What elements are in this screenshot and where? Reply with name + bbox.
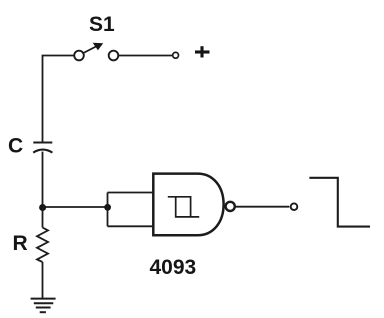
wire bbox=[108, 192, 154, 194]
wire bbox=[43, 56, 75, 143]
wire bbox=[235, 206, 289, 208]
wire bbox=[42, 208, 44, 228]
switch S1 throw contact bbox=[109, 51, 119, 61]
ground bbox=[31, 299, 56, 313]
svg-text:4093: 4093 bbox=[150, 256, 197, 279]
wire bbox=[42, 152, 44, 207]
wire bbox=[118, 55, 172, 57]
svg-text:R: R bbox=[13, 232, 28, 255]
schmitt hysteresis symbol bbox=[168, 197, 199, 217]
wire bbox=[107, 193, 109, 227]
inverting output bubble bbox=[226, 202, 235, 211]
switch S1 lever bbox=[83, 47, 96, 54]
svg-text:S1: S1 bbox=[89, 13, 115, 36]
wire bbox=[108, 225, 154, 227]
output terminal bbox=[291, 203, 298, 210]
svg-text:C: C bbox=[8, 135, 23, 158]
nand gate U1 bbox=[153, 174, 223, 236]
junction bbox=[39, 204, 46, 211]
resistor R bbox=[37, 228, 48, 263]
capacitor C bbox=[33, 143, 52, 153]
switch S1 arrowhead bbox=[93, 43, 104, 51]
terminal + bbox=[173, 52, 179, 58]
label + bbox=[195, 46, 210, 57]
switch S1 pole contact bbox=[74, 51, 84, 61]
wire bbox=[42, 262, 44, 299]
output waveform symbol bbox=[309, 178, 370, 227]
junction bbox=[104, 204, 111, 211]
wire bbox=[43, 206, 108, 208]
